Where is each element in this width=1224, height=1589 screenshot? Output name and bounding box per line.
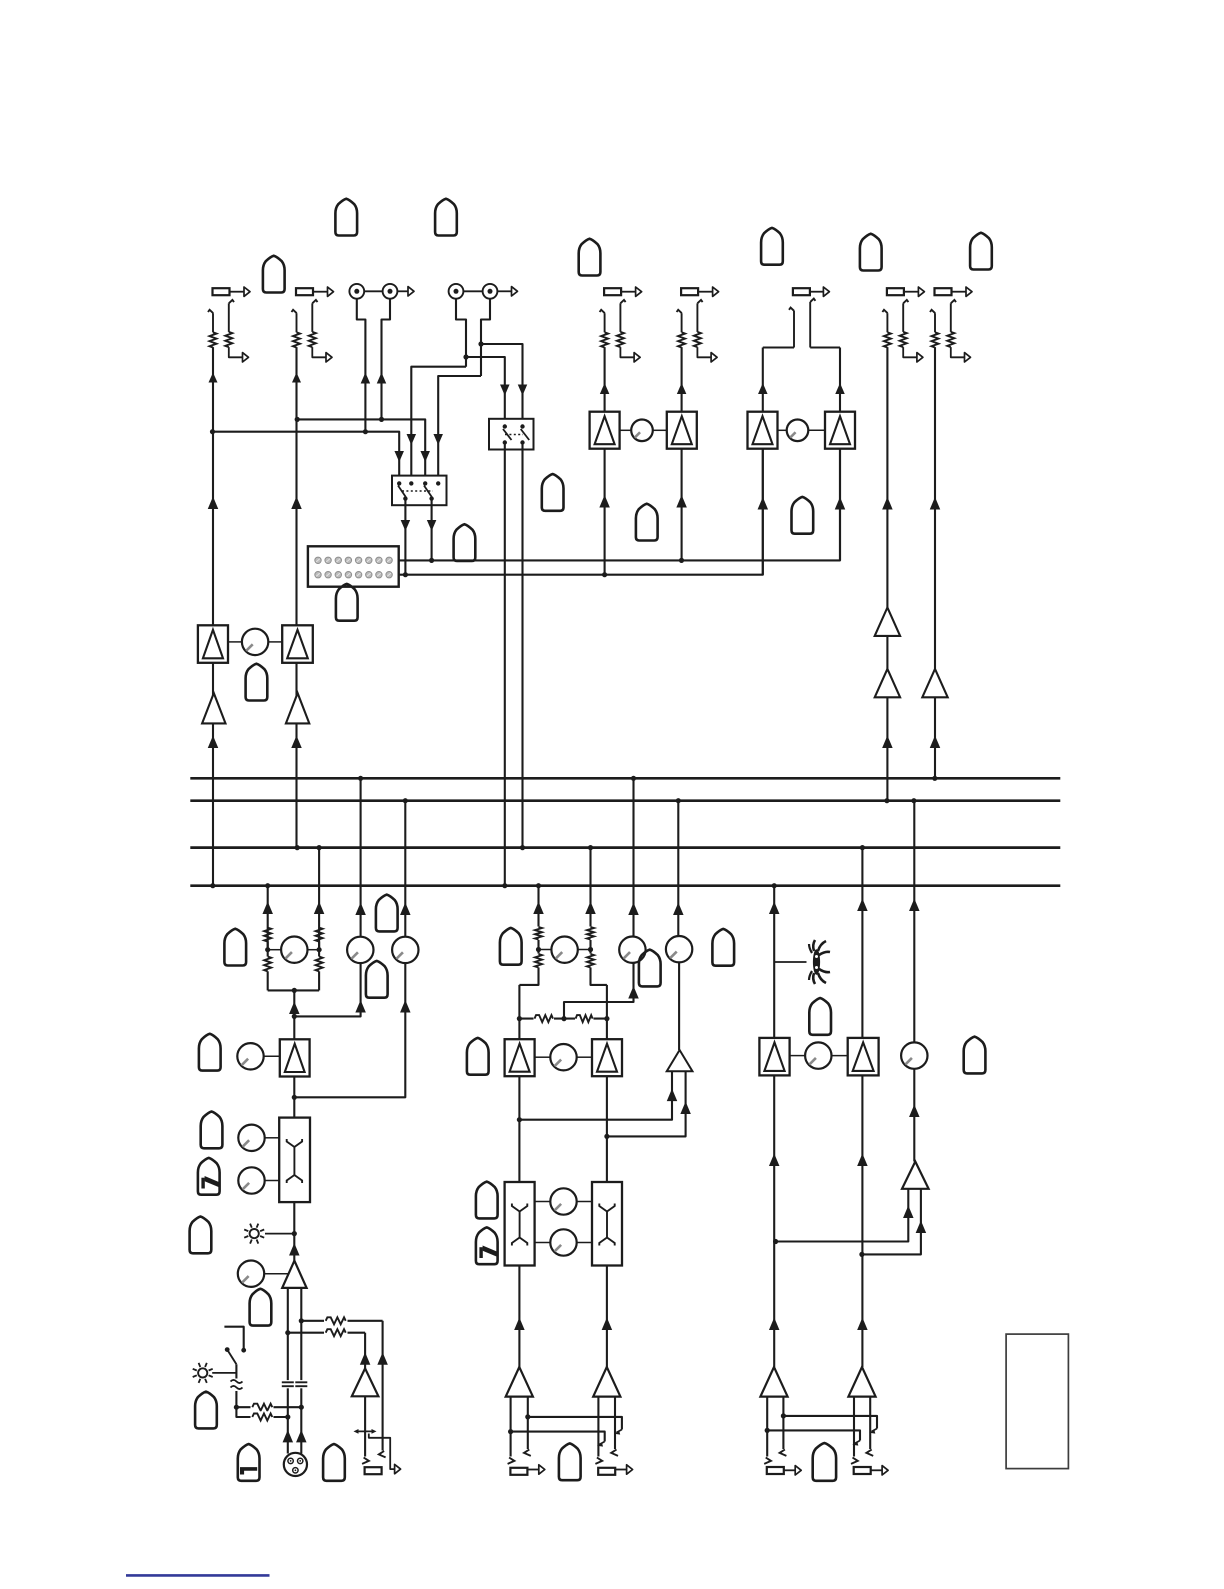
- pot VR-G: [787, 420, 809, 442]
- node M pan-R bus3: [588, 845, 593, 850]
- monitor stub + glyph: [774, 961, 806, 963]
- wire SW2 out2: [427, 500, 437, 560]
- wire R colR low: [857, 1075, 868, 1367]
- amplifier box E: [590, 412, 620, 449]
- amplifier box R-L: [759, 1038, 789, 1076]
- wire jack D out arrow: [497, 287, 517, 296]
- resistor RAa: [210, 332, 217, 347]
- bus line 4: [190, 884, 1060, 887]
- amplifier M in R: [593, 1367, 620, 1397]
- resistor pan-L a: [264, 928, 271, 942]
- insert tap arrows: [354, 1429, 377, 1434]
- resistor M pan-L b: [533, 954, 544, 968]
- jack M-L ring: [524, 1450, 531, 1456]
- label blob S1: [542, 474, 564, 511]
- label blob T5: [860, 234, 882, 271]
- wire RH termination arrow: [903, 347, 923, 362]
- wire RB termination arrow: [312, 347, 332, 362]
- pot VR M level: [535, 1044, 592, 1070]
- jack switch contacts RA: [208, 300, 234, 332]
- jack switch contacts RI: [930, 300, 956, 332]
- node col A bus4: [210, 883, 215, 888]
- node phones bus2: [911, 798, 916, 803]
- wire col G-R upper: [835, 348, 845, 412]
- amplifier tri H1: [875, 608, 900, 636]
- wire pot-A link: [228, 641, 282, 643]
- wire phones stem L: [776, 1189, 914, 1242]
- wire aux2 to bus2: [400, 801, 411, 937]
- pot VR pan L-group: [268, 937, 319, 963]
- wire M pan-L: [519, 886, 543, 985]
- pot VR-A (st out level): [242, 629, 268, 655]
- phone jack C1: [349, 284, 364, 299]
- resistor phantom R2: [251, 1411, 274, 1422]
- wire col G-L lower: [758, 449, 769, 575]
- wire D right to SW2: [433, 376, 481, 482]
- resistor M pan-R a: [585, 927, 596, 941]
- wire insert return col: [377, 1321, 388, 1451]
- wire M colL low: [514, 1266, 525, 1368]
- wire M stems R: [598, 1397, 615, 1457]
- node SW2 out2 row1: [429, 558, 434, 563]
- label blob P8: [250, 1289, 272, 1326]
- wire pot G links: [778, 429, 826, 431]
- node SW1-L bus4: [502, 883, 507, 888]
- node col H bus2: [884, 798, 889, 803]
- label blob T2: [435, 199, 457, 236]
- resistor RBa: [293, 332, 300, 347]
- resistor send1: [324, 1315, 348, 1326]
- pot VR gain L: [238, 1261, 288, 1287]
- node pan-R mid: [317, 947, 322, 952]
- wire R stems L: [765, 1397, 786, 1457]
- label blob T4: [761, 228, 783, 265]
- connector G: [793, 287, 830, 296]
- resistor M pan-R b: [585, 954, 596, 968]
- label blob M3: [712, 929, 734, 966]
- jack R-R ring: [866, 1450, 873, 1456]
- label blob Q6: [559, 1443, 581, 1480]
- wire phones col: [909, 801, 920, 1043]
- connector insert: [365, 1467, 382, 1474]
- node M tapL: [517, 1117, 522, 1122]
- wire R colR: [857, 848, 868, 1038]
- wire col G-L: [758, 348, 768, 413]
- connector R-R: [854, 1466, 888, 1475]
- resistor M sum b: [575, 1013, 594, 1024]
- wire G split left: [763, 346, 794, 348]
- resistor M sum a: [534, 1013, 555, 1024]
- label blob T7: [263, 256, 285, 293]
- wire phantom R1: [236, 1406, 301, 1408]
- jack M-L tip: [508, 1458, 515, 1464]
- amplifier insert L: [352, 1368, 379, 1396]
- pot VR eq-hi L: [238, 1125, 279, 1151]
- label blob M2: [639, 950, 661, 987]
- label blob P6 (7): [198, 1158, 220, 1195]
- wire SW1 out R to bus3: [521, 444, 523, 848]
- wire SW2 out1: [401, 500, 411, 575]
- wire D right stem: [481, 299, 490, 376]
- resistor RHa: [884, 332, 891, 347]
- node col B / h1: [295, 417, 300, 422]
- label blob P11: [323, 1444, 345, 1481]
- wire insert loop: [369, 1434, 401, 1474]
- resistor RFb: [694, 332, 701, 347]
- node col B bus3: [295, 845, 300, 850]
- wire RA termination arrow: [229, 347, 249, 362]
- resistor RIa: [932, 332, 939, 347]
- bus line 3: [190, 846, 1060, 849]
- jack R-L tip: [764, 1458, 771, 1464]
- jack R-R tip: [851, 1458, 858, 1464]
- resistor pan-R b: [316, 942, 323, 991]
- pot VR level L: [237, 1043, 279, 1069]
- jack contacts G: [789, 299, 815, 348]
- label blob P7: [190, 1217, 212, 1254]
- connector M-L: [510, 1465, 544, 1475]
- bus line 2: [190, 799, 1060, 802]
- amplifier box L-fader: [280, 1039, 310, 1076]
- wire M aux1 to bus1: [628, 778, 639, 936]
- wire col B to bus: [291, 723, 302, 847]
- amplifier box G1: [748, 412, 778, 449]
- resistor RBb: [309, 332, 316, 347]
- resistor REb: [617, 332, 624, 347]
- connector RE: [604, 287, 642, 296]
- wire phones mid: [909, 1069, 920, 1162]
- wire col G-R lower: [835, 449, 846, 561]
- amplifier tri H2: [875, 669, 900, 697]
- node D left branch: [463, 354, 468, 359]
- connector RI: [935, 287, 973, 296]
- jack switch contacts RF: [677, 300, 703, 332]
- pot VR aux1 L: [347, 937, 373, 963]
- pot VR M eq-lo: [535, 1229, 592, 1255]
- pot VR M aux1: [619, 937, 645, 963]
- connector M-R: [598, 1465, 632, 1475]
- node C right / h1: [379, 417, 384, 422]
- wire col A upper: [209, 347, 218, 432]
- wire phantom R2: [236, 1407, 287, 1417]
- wire M sum stem L: [519, 1071, 677, 1120]
- phantom lamp: [193, 1363, 237, 1383]
- amplifier box F: [667, 412, 697, 449]
- switch SW2: [392, 476, 447, 506]
- amplifier box M-L: [505, 1039, 535, 1076]
- amplifier tri A2: [202, 663, 225, 724]
- wire M norm2: [511, 1432, 605, 1447]
- label blob Q4: [476, 1182, 498, 1219]
- wire D right to SW1: [481, 344, 527, 425]
- label blob Q1: [467, 1038, 489, 1075]
- wire col H to bus2: [882, 697, 893, 800]
- wire M aux2 lower: [678, 962, 680, 1050]
- phantom switch lever: [225, 1347, 237, 1364]
- node col A / h2: [210, 429, 215, 434]
- label blob P10 (1): [238, 1444, 260, 1481]
- wire pan-L left: [262, 886, 273, 950]
- wire M sum h: [517, 1016, 610, 1021]
- node row2 colE: [602, 572, 607, 577]
- wire M colR low: [602, 1266, 613, 1368]
- amplifier box G2: [825, 412, 855, 449]
- wire D left to SW2: [407, 367, 466, 482]
- node M aux2 bus2: [676, 798, 681, 803]
- EQ box L: [279, 1118, 310, 1203]
- label blob P9: [195, 1392, 217, 1429]
- node phantom j: [234, 1405, 239, 1410]
- phantom rail: [224, 1327, 246, 1353]
- node SW1-R bus3: [520, 845, 525, 850]
- wire col E: [599, 347, 610, 575]
- bus line 1: [190, 777, 1060, 780]
- amplifier M in L: [506, 1367, 533, 1397]
- resistor RFa: [678, 332, 685, 347]
- node row1 colF: [679, 558, 684, 563]
- wire pan join: [268, 988, 319, 1040]
- jack M-R tip: [595, 1458, 602, 1464]
- node SW2 out1 row2: [403, 572, 408, 577]
- node D right branch: [478, 341, 483, 346]
- label blob R1: [809, 998, 831, 1035]
- label blob S4: [246, 664, 268, 701]
- footer rule (blue): [126, 1574, 270, 1577]
- EQ box M-L: [505, 1182, 535, 1266]
- label blob R3: [813, 1443, 836, 1481]
- insert jack ring contact: [379, 1451, 386, 1457]
- jack switch contacts RE: [600, 300, 626, 332]
- node M pan-R mid: [588, 947, 593, 952]
- amplifier M sum tri: [667, 1050, 693, 1071]
- resistor M pan-L a: [533, 927, 544, 941]
- wire XLR cold stem: [296, 1288, 307, 1454]
- node col I bus1: [932, 776, 937, 781]
- wire row1: [399, 412, 840, 560]
- wire H link: [886, 636, 888, 669]
- wire L tap1: [294, 963, 366, 1016]
- wire G split right: [810, 346, 840, 348]
- peak lamp L: [244, 1224, 294, 1244]
- label blob S2: [454, 524, 476, 561]
- label blob R2: [964, 1037, 986, 1074]
- resistor RAb: [225, 332, 232, 347]
- label blob P2: [376, 895, 398, 932]
- indicator glyph (lamp): [809, 940, 830, 984]
- legend box: [1006, 1334, 1068, 1469]
- resistor REa: [601, 332, 608, 347]
- wire aux1 to bus1: [355, 778, 366, 936]
- wire L below fader: [292, 1077, 297, 1118]
- label blob S3: [336, 584, 358, 621]
- amplifier phones tri: [902, 1162, 929, 1189]
- label blob M1: [500, 928, 522, 965]
- label blob T1: [335, 199, 357, 236]
- label blob P1: [224, 929, 246, 966]
- node pan-L mid: [265, 947, 270, 952]
- pot VR M eq-hi: [535, 1188, 592, 1214]
- wire col I to bus1: [930, 697, 941, 778]
- resistor RIb: [947, 332, 954, 347]
- wire col B upper: [292, 347, 301, 419]
- label blob T6: [970, 233, 992, 270]
- pot VR aux2 L: [392, 937, 418, 963]
- node pan-L bus4: [265, 883, 270, 888]
- wire RF termination arrow: [697, 347, 717, 362]
- amplifier tri I1: [922, 669, 947, 697]
- jack M-R ring: [611, 1450, 618, 1456]
- wire RE termination arrow: [620, 347, 640, 362]
- jack R-L ring: [780, 1450, 787, 1456]
- glyph 7: [201, 1176, 219, 1189]
- amplifier tri B2: [286, 663, 309, 724]
- wire R norm2: [767, 1430, 860, 1445]
- pot VR R level: [790, 1042, 848, 1068]
- capacitors C1 C2 (DC block): [282, 1380, 308, 1388]
- label blob P4: [199, 1034, 221, 1071]
- wire pot EF links: [620, 429, 667, 431]
- wire C right stem: [377, 299, 390, 420]
- label blob T3: [579, 239, 601, 276]
- resistor send2: [324, 1327, 348, 1338]
- connector block (RCA matrix): [308, 546, 399, 586]
- label blob P5: [201, 1112, 223, 1149]
- amplifier box B1: [282, 625, 313, 663]
- wire R norm1: [783, 1416, 877, 1434]
- insert jack tip contact: [362, 1458, 369, 1464]
- amplifier box R-R: [848, 1038, 879, 1076]
- wire L tap2: [294, 963, 410, 1097]
- wire RI termination arrow: [951, 347, 971, 362]
- wire M stems L: [508, 1397, 530, 1457]
- resistor phantom R1: [251, 1402, 274, 1413]
- label blob S6: [792, 497, 814, 534]
- wire insert stem: [364, 1396, 366, 1456]
- node R colL bus4: [772, 883, 777, 888]
- pot VR phones: [901, 1042, 927, 1068]
- phantom strain: [229, 1364, 244, 1407]
- jack switch contacts RH: [882, 300, 908, 332]
- wire M norm1: [528, 1417, 622, 1435]
- node M pan-L bus4: [536, 883, 541, 888]
- amplifier R in L: [760, 1367, 787, 1397]
- wire R colL: [769, 886, 780, 1038]
- wire SW1 out L to bus4: [504, 444, 506, 886]
- wire M sum stem R: [607, 1071, 691, 1136]
- node M aux1 bus1: [631, 776, 636, 781]
- resistor pan-L b: [264, 942, 271, 991]
- node M tapR: [604, 1134, 609, 1139]
- resistor RHb: [900, 332, 907, 347]
- wire insert send col: [360, 1333, 371, 1369]
- connector RB: [296, 287, 334, 296]
- node R colR bus3: [860, 845, 865, 850]
- amplifier R in R: [848, 1367, 875, 1397]
- switch SW1: [489, 419, 534, 450]
- phone jack D1: [449, 284, 464, 299]
- connector RA: [213, 287, 251, 296]
- wire col B mid: [291, 419, 302, 625]
- wire M aux2 to bus2: [673, 801, 684, 936]
- wire M colL mid: [518, 985, 520, 1182]
- wire col H: [882, 347, 893, 607]
- wire pan-R right: [314, 848, 325, 950]
- wire C left stem: [357, 299, 370, 432]
- pot VR pan M: [539, 937, 591, 963]
- connector R-L: [767, 1466, 801, 1475]
- wire M pan-R: [585, 848, 607, 985]
- wire D left to SW1: [466, 357, 510, 425]
- XLR connector J1: [284, 1453, 307, 1476]
- phone jack D2: [463, 284, 497, 299]
- node L tap1: [292, 1014, 297, 1019]
- label blob S5: [636, 504, 658, 541]
- amplifier box M-R: [592, 1039, 622, 1076]
- wire R stems R: [854, 1397, 870, 1457]
- wire col I: [930, 347, 941, 669]
- wire M sum riser: [564, 964, 639, 1019]
- label blob P3: [366, 961, 388, 998]
- wire phones stem R: [862, 1189, 926, 1255]
- wire M colR mid: [606, 985, 608, 1182]
- amplifier box A1: [198, 625, 228, 663]
- pot VR-EF: [631, 420, 653, 442]
- amplifier diff L: [282, 1261, 306, 1288]
- node M pan-L mid: [536, 947, 541, 952]
- wire col A to bus: [208, 723, 219, 885]
- label blob Q5 (7): [476, 1227, 498, 1264]
- wire send2: [288, 1332, 365, 1334]
- wire R colL low: [769, 1075, 780, 1367]
- wire h2: [213, 432, 404, 482]
- pot VR M aux2: [666, 936, 692, 962]
- glyph 7 M: [479, 1246, 497, 1259]
- wire h1: [297, 419, 430, 481]
- resistor pan-R a: [316, 928, 323, 942]
- jack switch contacts RB: [292, 300, 318, 332]
- pot VR eq-lo L: [238, 1167, 279, 1193]
- wire D left stem: [456, 299, 466, 367]
- wire jack C out arrow: [397, 287, 414, 296]
- node pan-R bus3: [317, 845, 322, 850]
- wire row2: [399, 412, 763, 575]
- EQ box M-R: [592, 1182, 622, 1266]
- glyph 1: [240, 1467, 257, 1474]
- wire send1: [301, 1320, 382, 1322]
- wire XLR hot stem: [283, 1288, 294, 1454]
- connector RH: [887, 287, 925, 296]
- wire col A mid: [208, 432, 219, 626]
- wire L below EQ: [289, 1202, 300, 1261]
- node aux2 bus2: [403, 798, 408, 803]
- wire col F: [676, 347, 687, 560]
- node C left / h2: [363, 429, 368, 434]
- connector RF: [681, 287, 719, 296]
- phone jack C2: [364, 284, 397, 299]
- node aux1 bus1: [358, 776, 363, 781]
